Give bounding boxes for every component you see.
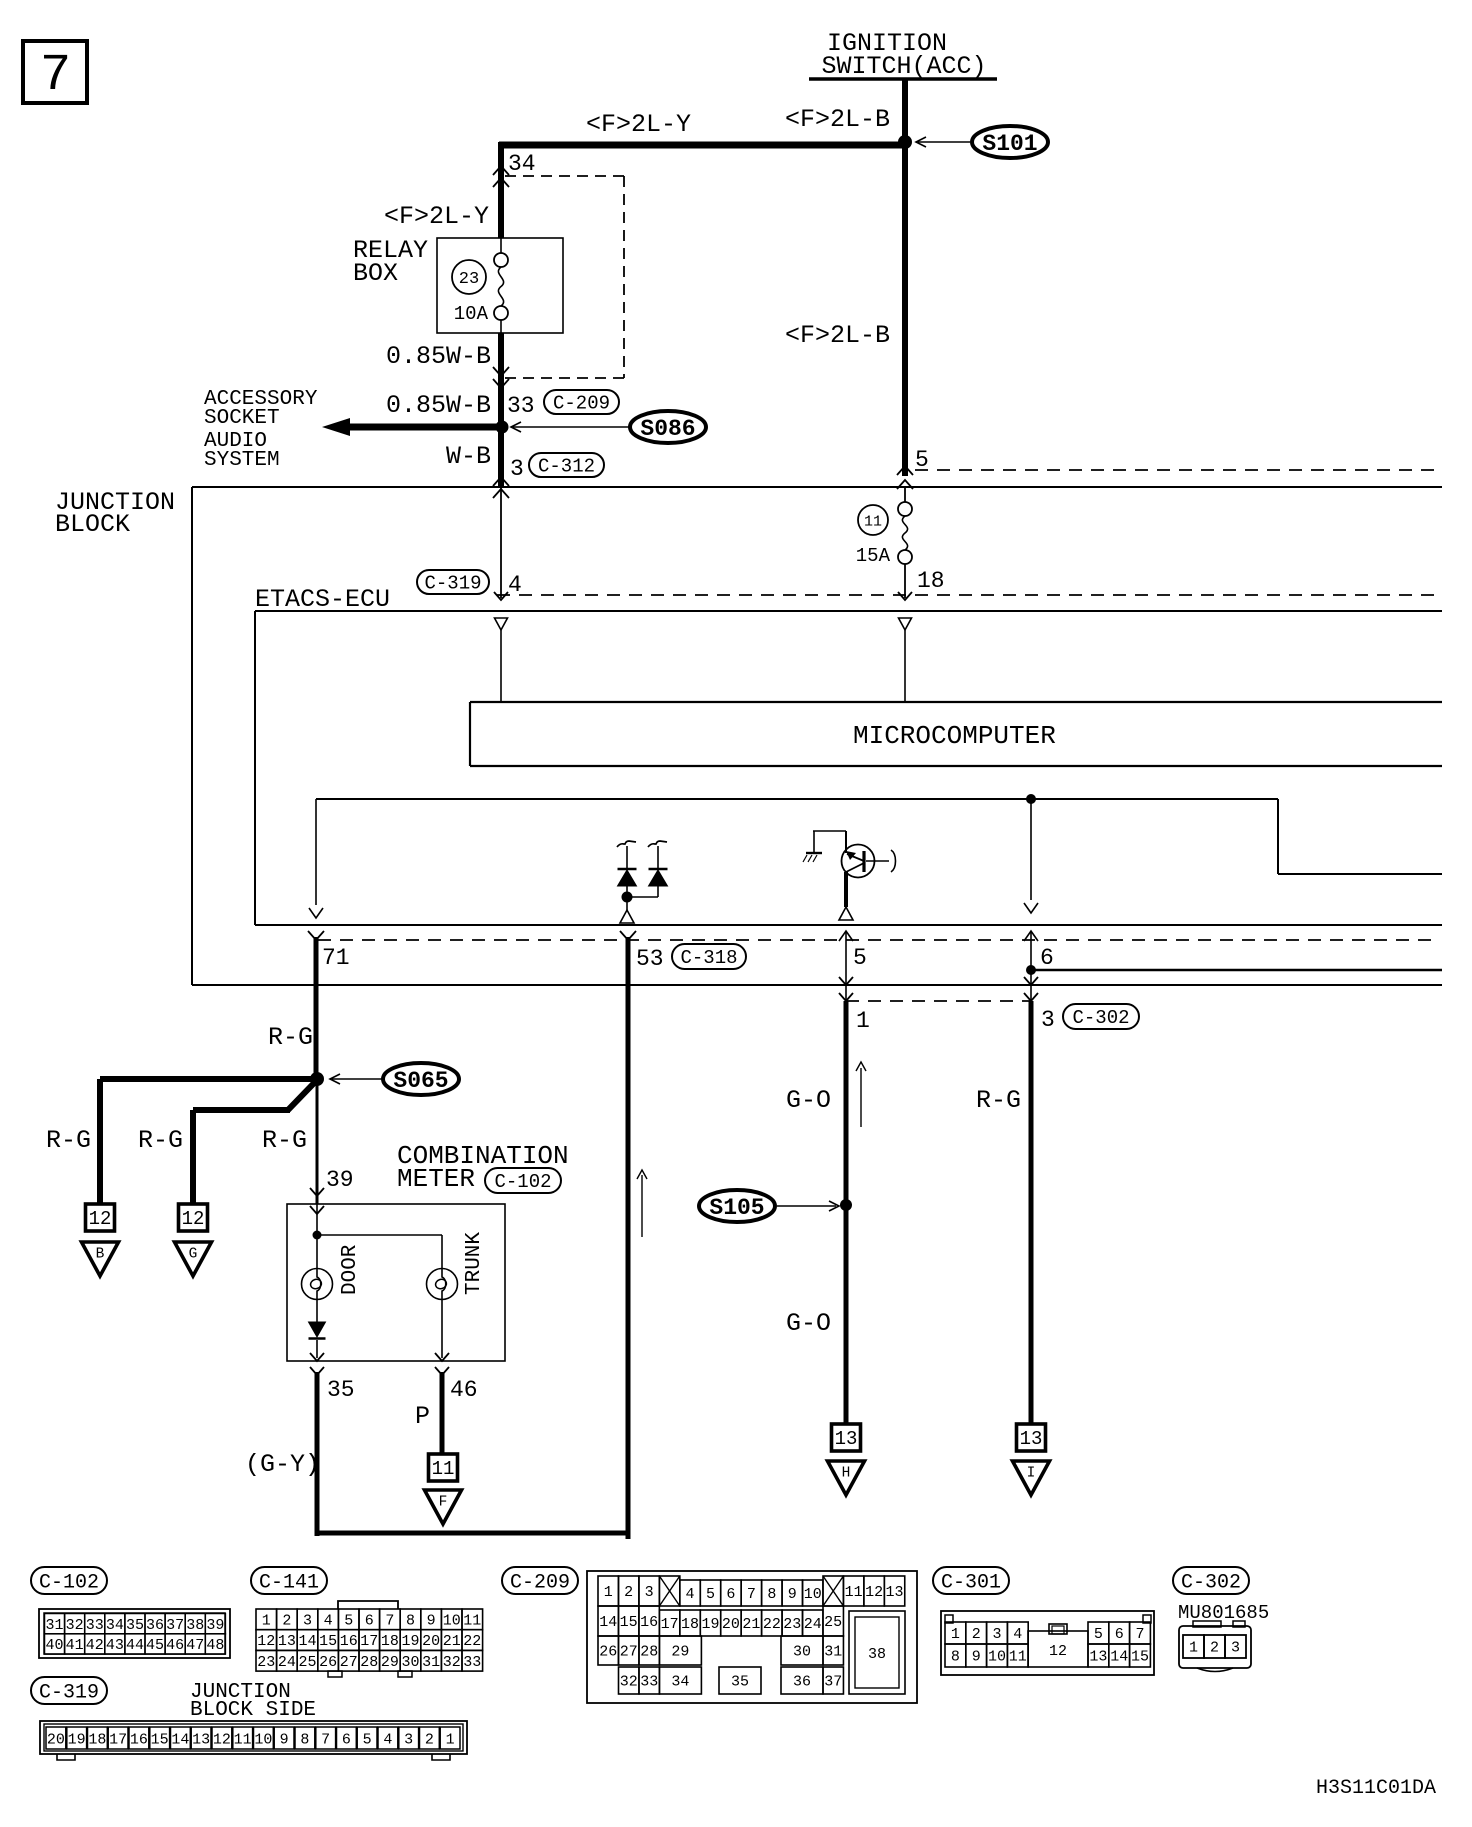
svg-text:11: 11 [864,513,882,530]
svg-text:37: 37 [166,1617,184,1634]
svg-text:36: 36 [793,1674,811,1691]
svg-text:41: 41 [66,1637,84,1654]
svg-text:17: 17 [109,1731,127,1748]
svg-text:METER: METER [397,1164,475,1194]
svg-text:3: 3 [1041,1007,1055,1033]
svg-text:B: B [96,1247,105,1263]
svg-text:31: 31 [824,1644,842,1661]
svg-text:36: 36 [146,1617,164,1634]
svg-text:12: 12 [1049,1643,1067,1660]
svg-text:5: 5 [1094,1626,1103,1643]
svg-text:2: 2 [282,1612,291,1629]
svg-text:SYSTEM: SYSTEM [204,449,280,472]
svg-text:0.85W-B: 0.85W-B [386,342,491,371]
svg-text:15: 15 [319,1633,337,1650]
svg-text:1: 1 [446,1731,455,1748]
svg-text:22: 22 [463,1633,481,1650]
svg-text:G-O: G-O [786,1086,831,1115]
svg-text:40: 40 [46,1637,64,1654]
svg-text:<F>2L-Y: <F>2L-Y [586,110,691,139]
svg-text:14: 14 [298,1633,316,1650]
svg-text:6: 6 [365,1612,374,1629]
svg-text:4: 4 [686,1586,695,1603]
svg-text:47: 47 [186,1637,204,1654]
svg-text:31: 31 [422,1654,440,1671]
svg-text:9: 9 [280,1731,289,1748]
svg-text:26: 26 [599,1644,617,1661]
svg-text:18: 18 [681,1616,699,1633]
svg-text:1: 1 [604,1584,613,1601]
svg-text:34: 34 [508,151,536,177]
svg-text:1: 1 [856,1008,870,1034]
svg-text:30: 30 [793,1644,811,1661]
svg-text:33: 33 [507,393,535,419]
svg-text:46: 46 [450,1377,478,1403]
svg-text:6: 6 [726,1586,735,1603]
svg-text:18: 18 [88,1731,106,1748]
svg-text:(G-Y): (G-Y) [245,1450,320,1479]
svg-text:R-G: R-G [262,1126,307,1155]
svg-text:24: 24 [278,1654,296,1671]
svg-text:12: 12 [182,1208,205,1230]
svg-text:6: 6 [1115,1626,1124,1643]
svg-text:12: 12 [213,1731,231,1748]
svg-text:13: 13 [278,1633,296,1650]
svg-text:13: 13 [835,1428,858,1450]
svg-text:<F>2L-B: <F>2L-B [785,105,890,134]
svg-text:MICROCOMPUTER: MICROCOMPUTER [853,721,1056,751]
svg-text:BOX: BOX [353,259,398,288]
svg-text:18: 18 [381,1633,399,1650]
svg-text:19: 19 [401,1633,419,1650]
svg-text:21: 21 [742,1616,760,1633]
svg-text:28: 28 [360,1654,378,1671]
svg-text:6: 6 [342,1731,351,1748]
svg-text:30: 30 [401,1654,419,1671]
svg-text:23: 23 [257,1654,275,1671]
svg-text:2: 2 [425,1731,434,1748]
svg-text:22: 22 [763,1616,781,1633]
svg-text:7: 7 [747,1586,756,1603]
svg-text:44: 44 [126,1637,144,1654]
svg-text:29: 29 [671,1644,689,1661]
svg-text:71: 71 [322,945,350,971]
svg-text:1: 1 [262,1612,271,1629]
svg-text:9: 9 [972,1649,981,1666]
svg-text:11: 11 [463,1612,481,1629]
svg-text:8: 8 [767,1586,776,1603]
svg-text:<F>2L-Y: <F>2L-Y [384,202,489,231]
svg-text:33: 33 [86,1617,104,1634]
svg-text:17: 17 [661,1616,679,1633]
svg-text:8: 8 [951,1649,960,1666]
svg-text:18: 18 [917,568,945,594]
svg-text:G-O: G-O [786,1309,831,1338]
svg-text:12: 12 [865,1584,883,1601]
svg-text:14: 14 [171,1731,189,1748]
svg-text:10: 10 [443,1612,461,1629]
svg-text:C-102: C-102 [494,1171,551,1193]
svg-text:1: 1 [951,1626,960,1643]
svg-text:BLOCK: BLOCK [55,510,130,539]
svg-text:7: 7 [385,1612,394,1629]
svg-text:38: 38 [186,1617,204,1634]
svg-text:9: 9 [427,1612,436,1629]
svg-text:13: 13 [1089,1649,1107,1666]
svg-text:28: 28 [640,1644,658,1661]
svg-text:21: 21 [443,1633,461,1650]
svg-text:27: 27 [340,1654,358,1671]
svg-text:19: 19 [701,1616,719,1633]
svg-text:37: 37 [824,1674,842,1691]
svg-text:P: P [415,1402,430,1431]
svg-text:32: 32 [66,1617,84,1634]
svg-text:8: 8 [406,1612,415,1629]
svg-text:11: 11 [234,1731,252,1748]
svg-text:G: G [189,1247,198,1263]
svg-text:C-302: C-302 [1181,1571,1241,1594]
svg-text:1: 1 [1189,1640,1198,1657]
svg-text:5: 5 [853,945,867,971]
svg-text:27: 27 [620,1644,638,1661]
svg-text:20: 20 [47,1731,65,1748]
svg-text:42: 42 [86,1637,104,1654]
svg-text:34: 34 [106,1617,124,1634]
svg-text:S105: S105 [709,1195,764,1221]
svg-text:C-319: C-319 [424,572,481,594]
svg-text:29: 29 [381,1654,399,1671]
svg-text:C-301: C-301 [941,1571,1001,1594]
svg-text:10: 10 [254,1731,272,1748]
svg-text:13: 13 [886,1584,904,1601]
svg-text:13: 13 [1020,1428,1043,1450]
svg-text:45: 45 [146,1637,164,1654]
svg-text:F: F [439,1495,448,1511]
svg-text:24: 24 [804,1616,822,1633]
svg-text:53: 53 [636,946,664,972]
svg-text:7: 7 [321,1731,330,1748]
svg-text:15: 15 [620,1614,638,1631]
svg-text:R-G: R-G [138,1126,183,1155]
svg-text:26: 26 [319,1654,337,1671]
svg-text:3: 3 [1231,1640,1240,1657]
svg-text:15: 15 [151,1731,169,1748]
svg-text:H: H [842,1466,851,1482]
svg-text:10: 10 [804,1586,822,1603]
svg-text:MU801685: MU801685 [1178,1602,1269,1624]
svg-text:33: 33 [463,1654,481,1671]
svg-text:SWITCH(ACC): SWITCH(ACC) [821,52,986,81]
svg-text:5: 5 [363,1731,372,1748]
svg-text:16: 16 [130,1731,148,1748]
svg-text:TRUNK: TRUNK [463,1232,486,1295]
svg-text:R-G: R-G [46,1126,91,1155]
svg-text:C-319: C-319 [39,1681,99,1704]
svg-text:9: 9 [788,1586,797,1603]
svg-text:7: 7 [40,46,71,105]
svg-text:3: 3 [303,1612,312,1629]
svg-text:33: 33 [640,1674,658,1691]
svg-text:14: 14 [1110,1649,1128,1666]
svg-text:5: 5 [706,1586,715,1603]
svg-text:34: 34 [671,1674,689,1691]
svg-text:4: 4 [1013,1626,1022,1643]
svg-text:2: 2 [624,1584,633,1601]
svg-text:3: 3 [645,1584,654,1601]
svg-text:16: 16 [640,1614,658,1631]
svg-text:4: 4 [324,1612,333,1629]
svg-text:4: 4 [383,1731,392,1748]
svg-text:W-B: W-B [446,442,491,471]
svg-text:10: 10 [988,1649,1006,1666]
svg-text:3: 3 [510,456,524,482]
svg-text:8: 8 [300,1731,309,1748]
svg-text:16: 16 [340,1633,358,1650]
svg-text:C-209: C-209 [553,392,610,414]
svg-text:7: 7 [1135,1626,1144,1643]
svg-text:R-G: R-G [268,1023,313,1052]
svg-text:S101: S101 [982,131,1037,157]
svg-text:39: 39 [206,1617,224,1634]
svg-text:6: 6 [1040,945,1054,971]
svg-text:14: 14 [599,1614,617,1631]
svg-text:12: 12 [257,1633,275,1650]
svg-text:H3S11C01DA: H3S11C01DA [1316,1777,1436,1800]
svg-text:25: 25 [824,1614,842,1631]
svg-text:15: 15 [1131,1649,1149,1666]
svg-text:19: 19 [68,1731,86,1748]
svg-text:S065: S065 [393,1068,448,1094]
svg-text:46: 46 [166,1637,184,1654]
svg-text:35: 35 [327,1377,355,1403]
svg-text:SOCKET: SOCKET [204,407,280,430]
svg-text:20: 20 [422,1633,440,1650]
svg-text:5: 5 [344,1612,353,1629]
svg-text:C-302: C-302 [1072,1007,1129,1029]
svg-text:10A: 10A [454,303,489,325]
svg-text:C-312: C-312 [538,455,595,477]
svg-text:11: 11 [432,1458,455,1480]
svg-text:3: 3 [404,1731,413,1748]
svg-text:43: 43 [106,1637,124,1654]
svg-text:DOOR: DOOR [339,1244,362,1295]
svg-text:38: 38 [868,1646,886,1663]
svg-text:C-141: C-141 [259,1571,319,1594]
svg-text:2: 2 [1210,1640,1219,1657]
svg-text:<F>2L-B: <F>2L-B [785,321,890,350]
svg-text:13: 13 [192,1731,210,1748]
svg-text:S086: S086 [640,416,695,442]
svg-text:48: 48 [206,1637,224,1654]
svg-text:C-318: C-318 [680,947,737,969]
svg-text:39: 39 [326,1167,354,1193]
svg-text:2: 2 [972,1626,981,1643]
svg-text:11: 11 [1009,1649,1027,1666]
svg-text:32: 32 [620,1674,638,1691]
svg-text:3: 3 [992,1626,1001,1643]
svg-text:35: 35 [126,1617,144,1634]
svg-text:23: 23 [783,1616,801,1633]
svg-text:R-G: R-G [976,1086,1021,1115]
svg-text:20: 20 [722,1616,740,1633]
svg-text:31: 31 [46,1617,64,1634]
svg-text:0.85W-B: 0.85W-B [386,391,491,420]
svg-text:32: 32 [443,1654,461,1671]
svg-text:11: 11 [845,1584,863,1601]
svg-text:23: 23 [459,270,479,289]
svg-text:15A: 15A [856,545,891,567]
svg-text:25: 25 [298,1654,316,1671]
svg-text:BLOCK SIDE: BLOCK SIDE [190,1699,316,1722]
svg-text:ETACS-ECU: ETACS-ECU [255,585,390,614]
svg-text:17: 17 [360,1633,378,1650]
svg-text:35: 35 [731,1674,749,1691]
svg-text:C-209: C-209 [510,1571,570,1594]
svg-text:I: I [1027,1466,1036,1482]
svg-text:C-102: C-102 [39,1571,99,1594]
svg-text:12: 12 [89,1208,112,1230]
